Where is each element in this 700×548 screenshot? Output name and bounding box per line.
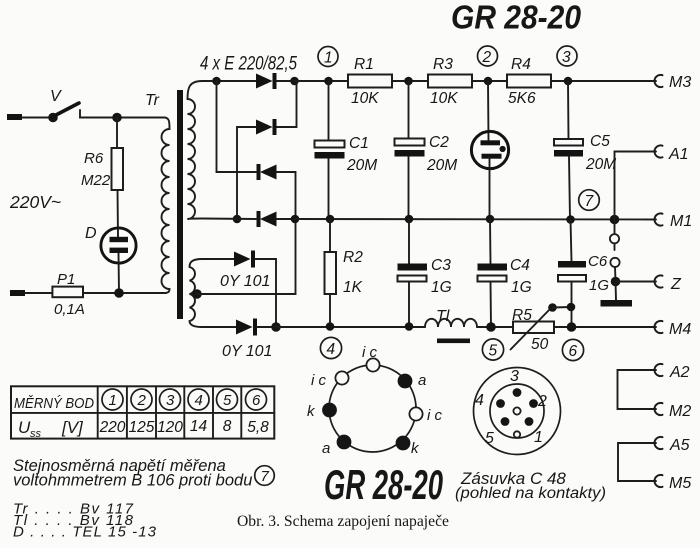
wire — [554, 326, 656, 328]
wire — [237, 127, 256, 219]
svg-text:3: 3 — [510, 368, 519, 385]
terminal stub L1 — [7, 114, 22, 120]
wire lower secondary top lead — [202, 258, 234, 260]
node 7 — [579, 190, 600, 211]
svg-text:1: 1 — [324, 50, 333, 67]
switch V — [48, 88, 86, 122]
wire — [277, 172, 296, 219]
svg-text:MĚRNÝ BOD: MĚRNÝ BOD — [14, 395, 94, 412]
node bridge bottom-left — [233, 215, 242, 224]
terminal A1 — [655, 145, 689, 163]
svg-text:3: 3 — [166, 392, 175, 409]
svg-text:GR 28-20: GR 28-20 — [451, 0, 582, 36]
svg-text:R3: R3 — [433, 56, 453, 73]
wire — [328, 81, 330, 141]
svg-text:0Y 101: 0Y 101 — [222, 343, 272, 360]
wire — [472, 80, 507, 82]
svg-text:M3: M3 — [669, 74, 691, 91]
svg-text:5,8: 5,8 — [247, 419, 269, 436]
svg-text:C2: C2 — [429, 134, 449, 151]
svg-text:14: 14 — [190, 418, 208, 435]
fuse P1 — [52, 271, 84, 318]
node 7 note — [255, 466, 275, 486]
node 6 — [562, 339, 583, 360]
node junction switch/R6 — [112, 113, 122, 123]
wire — [116, 118, 118, 149]
wire — [489, 158, 491, 219]
node junction A1 — [610, 215, 620, 225]
svg-text:R6: R6 — [84, 150, 104, 167]
svg-text:1G: 1G — [431, 279, 452, 296]
svg-text:20M: 20M — [585, 156, 616, 173]
svg-text:7: 7 — [261, 468, 270, 485]
svg-text:2: 2 — [482, 49, 492, 66]
terminal stub L2 — [10, 290, 25, 296]
svg-text:125: 125 — [129, 419, 155, 436]
svg-text:i c: i c — [427, 407, 443, 424]
svg-text:5: 5 — [485, 430, 494, 447]
wire center tap return — [197, 223, 296, 294]
socket C48 diagram — [474, 368, 561, 455]
svg-text:D: D — [85, 225, 97, 242]
svg-text:2: 2 — [537, 393, 547, 410]
wire — [490, 282, 493, 328]
svg-text:20M: 20M — [426, 157, 457, 174]
choke Tl — [425, 308, 477, 343]
svg-text:k: k — [411, 440, 420, 457]
wire — [551, 80, 656, 82]
wire — [118, 253, 121, 293]
node junction C3 — [405, 215, 414, 224]
capacitor C4 — [478, 257, 532, 296]
svg-text:Z: Z — [670, 276, 682, 293]
capacitor C1 — [315, 135, 378, 174]
wire rail M4 — [276, 326, 425, 328]
wire — [408, 219, 410, 264]
terminal M5 — [655, 475, 692, 492]
svg-text:1G: 1G — [589, 277, 609, 294]
svg-text:6: 6 — [569, 343, 578, 360]
terminal M2 — [655, 403, 692, 420]
contact circle upper — [610, 234, 619, 243]
node junction C3 bottom — [405, 322, 414, 331]
svg-text:8: 8 — [223, 418, 232, 435]
terminal A5 — [655, 437, 690, 454]
diode D3 — [259, 164, 277, 180]
wire A5/M5 bracket — [618, 443, 656, 481]
terminal Z — [655, 275, 682, 293]
svg-text:k: k — [307, 403, 316, 420]
svg-text:10K: 10K — [351, 90, 379, 107]
svg-text:5K6: 5K6 — [508, 90, 536, 107]
svg-text:220V~: 220V~ — [9, 192, 61, 212]
svg-text:C5: C5 — [590, 133, 610, 150]
node 1 — [318, 47, 338, 67]
wire — [569, 157, 570, 220]
wire lower secondary bottom lead — [202, 326, 236, 328]
node junction C6 — [566, 215, 575, 224]
svg-text:220: 220 — [99, 419, 126, 436]
svg-text:Obr. 3. Schema zapojení napaje: Obr. 3. Schema zapojení napaječe — [237, 513, 449, 530]
wire — [616, 281, 657, 283]
svg-text:M2: M2 — [669, 403, 691, 420]
svg-text:50: 50 — [531, 336, 549, 353]
node bridge bottom-right — [291, 215, 300, 224]
svg-text:GR 28-20: GR 28-20 — [324, 461, 443, 508]
stabilizer tube — [471, 131, 508, 168]
wire — [25, 292, 52, 294]
svg-text:6: 6 — [252, 392, 261, 409]
wire — [83, 292, 166, 294]
svg-text:C3: C3 — [431, 257, 451, 274]
node junction fuse/D — [114, 288, 124, 298]
terminal M4 — [655, 321, 692, 338]
svg-text:a: a — [322, 440, 330, 457]
svg-text:a: a — [418, 372, 426, 389]
node center tap — [192, 289, 202, 299]
node junction C1 top — [324, 77, 333, 86]
wire A2/M2 bracket — [618, 370, 657, 409]
transformer secondary upper winding — [188, 81, 203, 219]
svg-text:A2: A2 — [669, 364, 690, 381]
svg-text:P1: P1 — [57, 271, 75, 288]
node bridge top-right — [290, 77, 299, 86]
wire — [615, 282, 618, 301]
terminal M1 — [655, 213, 693, 230]
svg-text:(pohled na kontakty): (pohled na kontakty) — [455, 485, 606, 502]
diode D1 — [256, 73, 275, 89]
svg-text:3: 3 — [562, 49, 571, 66]
svg-text:R1: R1 — [354, 56, 374, 73]
node bridge top-left — [212, 77, 221, 86]
svg-text:V: V — [50, 88, 62, 105]
transformer secondary lower winding — [190, 259, 203, 327]
svg-text:5: 5 — [223, 392, 232, 409]
wire — [477, 326, 513, 328]
node junction R2 bottom — [326, 322, 335, 331]
svg-text:voltohmmetrem B 106 proti b: voltohmmetrem B 106 proti bodu — [13, 472, 252, 490]
resistor R2 — [325, 249, 364, 296]
resistor R3 — [428, 56, 472, 107]
wire top rail — [295, 80, 349, 82]
svg-text:10K: 10K — [430, 90, 458, 107]
wire — [277, 218, 295, 220]
wire — [255, 259, 276, 327]
wire — [22, 117, 49, 119]
node 2 — [478, 46, 498, 66]
svg-text:4 x E 220/82,5: 4 x E 220/82,5 — [200, 54, 297, 75]
node junction C6 bottom — [567, 322, 577, 332]
node 3 — [557, 46, 577, 66]
svg-text:1: 1 — [534, 429, 543, 446]
svg-text:120: 120 — [157, 419, 183, 436]
svg-text:4: 4 — [475, 392, 484, 409]
diode D5 0Y101 — [220, 251, 270, 291]
svg-text:M5: M5 — [669, 475, 691, 492]
node junction C2 top — [404, 77, 413, 86]
wire A1 branch — [615, 152, 657, 220]
capacitor C3 — [398, 257, 452, 296]
wire rail M1 — [295, 218, 656, 221]
svg-text:ss: ss — [30, 428, 42, 440]
svg-text:4: 4 — [327, 341, 336, 358]
wire — [614, 267, 617, 281]
transformer primary winding — [162, 118, 170, 294]
contact circle lower — [610, 258, 619, 267]
wire — [117, 190, 120, 238]
svg-text:2: 2 — [137, 392, 147, 409]
capacitor C5 — [554, 133, 616, 173]
svg-text:i c: i c — [362, 344, 378, 361]
tube socket diagram — [307, 344, 443, 457]
wire — [567, 81, 570, 139]
wire — [489, 219, 492, 264]
resistor R1 — [348, 56, 392, 107]
wire — [329, 294, 331, 327]
diode D4 — [259, 211, 277, 227]
wire — [329, 219, 331, 252]
svg-text:R5: R5 — [512, 307, 532, 324]
svg-text:[V]: [V] — [61, 418, 84, 437]
wire — [257, 326, 276, 328]
node 4 — [320, 337, 341, 358]
wire — [408, 157, 410, 220]
svg-text:A1: A1 — [668, 146, 689, 163]
wire — [408, 81, 410, 139]
node junction rectifier out — [271, 322, 281, 332]
wire — [408, 282, 410, 328]
node junction R2 — [326, 215, 335, 224]
svg-text:0,1A: 0,1A — [54, 301, 85, 318]
glow lamp D — [85, 225, 136, 263]
node junction C4 bottom — [486, 322, 496, 332]
wire — [202, 218, 256, 221]
wire — [276, 80, 294, 82]
svg-text:D . . . . TEL 15 -13: D . . . . TEL 15 -13 — [13, 524, 157, 541]
capacitor C6 — [558, 253, 609, 294]
wire — [328, 159, 330, 220]
resistor R4 — [507, 56, 551, 107]
transformer core — [177, 90, 183, 319]
wire — [614, 243, 616, 250]
svg-text:4: 4 — [195, 392, 203, 409]
svg-text:1G: 1G — [511, 279, 532, 296]
wire — [276, 81, 297, 127]
wire — [571, 220, 572, 262]
wire — [80, 117, 165, 119]
svg-text:7: 7 — [585, 193, 595, 210]
svg-text:20M: 20M — [346, 157, 377, 174]
rheostat R5 — [511, 303, 576, 353]
svg-text:M1: M1 — [670, 213, 692, 230]
ground chassis bar — [601, 300, 633, 307]
node 5 — [482, 339, 503, 360]
svg-text:Tl: Tl — [436, 308, 450, 325]
svg-text:1K: 1K — [343, 279, 363, 296]
table merny bod — [11, 386, 274, 440]
wire — [614, 220, 616, 235]
node junction Z — [611, 277, 621, 287]
svg-text:1: 1 — [109, 392, 117, 409]
wire — [217, 81, 257, 172]
node junction C4 — [486, 215, 495, 224]
diode D6 0Y101 — [222, 319, 272, 361]
svg-text:i c: i c — [311, 372, 327, 389]
node junction C5 top — [564, 77, 573, 86]
resistor R6 — [81, 148, 123, 190]
wire — [487, 81, 490, 140]
svg-text:C1: C1 — [349, 135, 369, 152]
svg-text:5: 5 — [489, 343, 498, 360]
svg-text:C4: C4 — [510, 257, 530, 274]
svg-text:R4: R4 — [511, 56, 531, 73]
terminal A2 — [655, 364, 690, 381]
diode D2 — [256, 119, 275, 135]
svg-text:R2: R2 — [343, 249, 363, 266]
svg-text:C6: C6 — [588, 253, 608, 270]
wire — [571, 282, 573, 328]
wire — [202, 80, 256, 82]
svg-text:Tr: Tr — [145, 92, 160, 109]
capacitor C2 — [395, 134, 458, 174]
node junction tube top — [484, 77, 493, 86]
svg-text:M4: M4 — [669, 321, 691, 338]
terminal M3 — [655, 74, 692, 91]
svg-text:M22: M22 — [81, 172, 111, 189]
svg-text:A5: A5 — [669, 437, 690, 454]
wire — [392, 80, 428, 82]
svg-text:0Y 101: 0Y 101 — [220, 273, 270, 290]
